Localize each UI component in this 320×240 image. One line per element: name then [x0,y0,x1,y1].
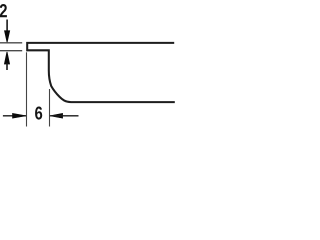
dimension 6 right tail [50,115,78,117]
dimension 6 right extension line [49,89,51,127]
dimension 2 lower arrow stem [6,63,8,70]
dimension 2 upper arrowhead (down) [5,31,10,42]
dimension 2 lower arrowhead (up) [5,52,10,64]
dimension 2 upper arrow stem [6,20,8,34]
dimension 6 left tail [3,115,26,117]
dimension 6 right arrowhead (points left) [50,113,63,118]
dimension 6 label [35,107,42,120]
profile outline [27,43,175,102]
dimension 2 label [0,4,7,17]
dimension 2 extension line top [0,42,22,44]
dimension 6 left extension line [26,52,28,126]
dimension 6 left arrowhead (points right) [13,113,27,118]
dimension 2 extension line bottom [0,50,22,52]
